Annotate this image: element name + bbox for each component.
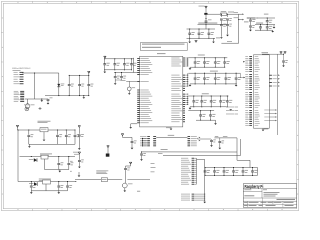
svg-text:USB/Flash/UART/PWR/A-IO: USB/Flash/UART/PWR/A-IO — [12, 67, 31, 70]
svg-text:Raspberry Pi: Raspberry Pi — [245, 184, 264, 189]
